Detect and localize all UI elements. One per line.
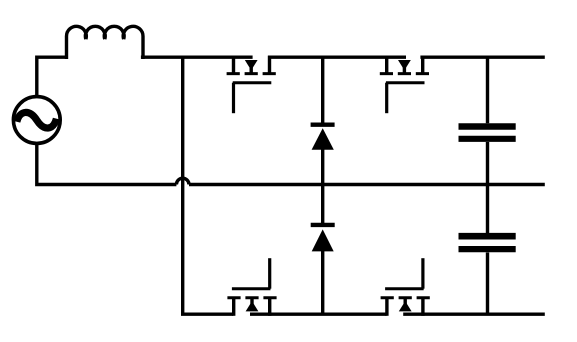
transistor Q2 (top right MOSFET)	[380, 56, 429, 114]
transistor Q3 (bottom left MOSFET)	[227, 258, 276, 316]
wire AC bottom lead down and right to middle rail	[37, 144, 177, 185]
wire top rail segment B (Q1 source to Q2)	[268, 56, 406, 59]
AC source V1	[13, 97, 60, 144]
wire top rail segment A (inductor to Q1)	[141, 56, 253, 59]
transistor Q4 (bottom right MOSFET)	[381, 258, 430, 316]
diode D1 (upper, in center leg)	[311, 56, 335, 224]
inductor L1	[67, 26, 144, 59]
wire bottom rail segment R (Q4 to right end)	[403, 313, 545, 316]
wire middle rail right of hop	[189, 183, 545, 186]
wire bottom rail segment L (vertical branch to Q3)	[181, 313, 233, 316]
capacitor C1 (top output cap)	[459, 56, 516, 233]
capacitor C2 (bottom output cap)	[459, 236, 516, 314]
wire bottom rail segment M (Q3 to Q4)	[250, 313, 387, 316]
wire crossover hop on middle rail	[176, 178, 189, 184]
transistor Q1 (top left MOSFET)	[227, 56, 276, 114]
wire AC top lead up and over to inductor	[37, 57, 67, 96]
wire vertical branch from top rail down to bottom rail	[181, 57, 184, 313]
wire top rail segment C (Q2 source to right end)	[420, 56, 544, 59]
diode D2 (lower, in center leg)	[311, 225, 335, 313]
